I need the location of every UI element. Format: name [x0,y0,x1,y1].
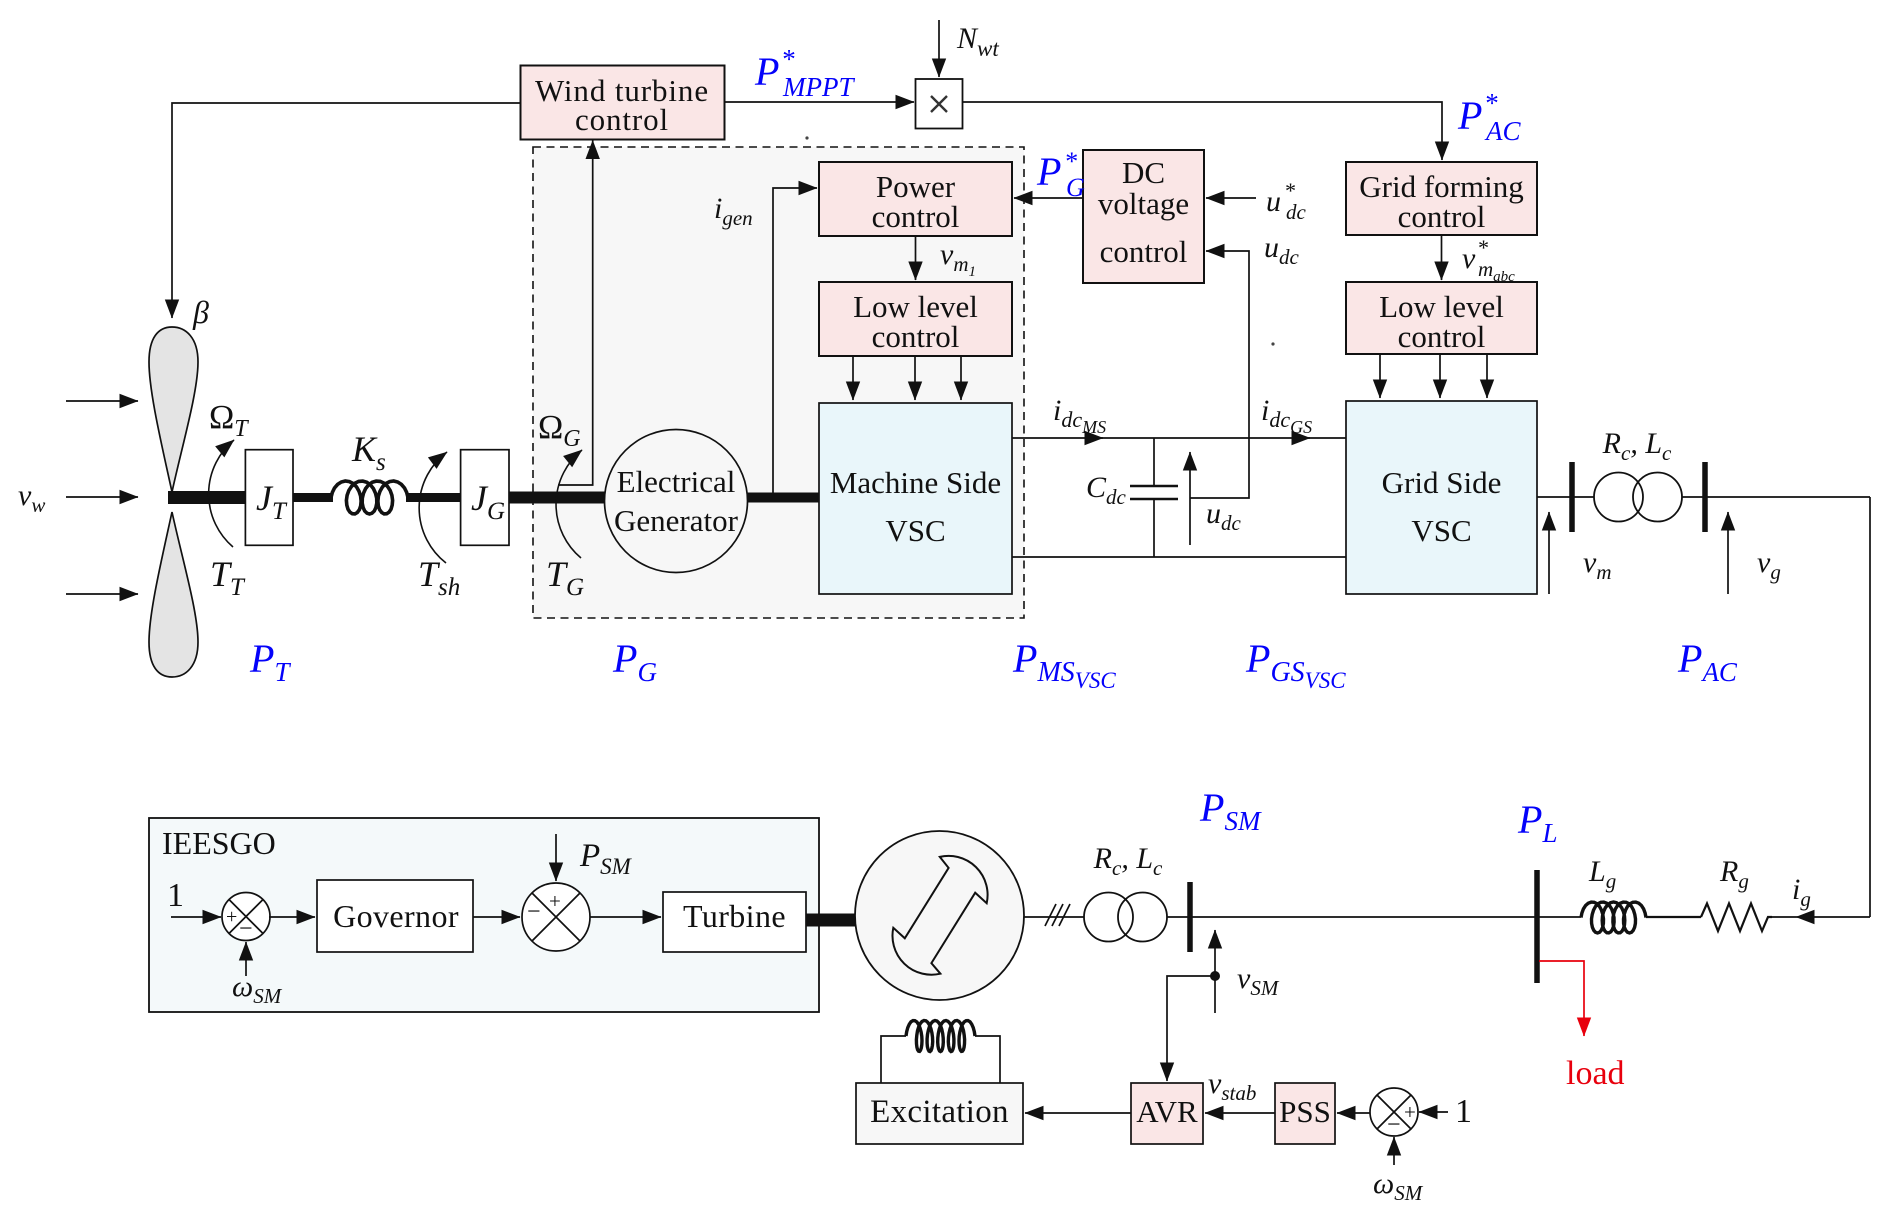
ac line transformer to load bus [1167,916,1581,918]
svg-text:Governor: Governor [333,898,459,934]
wire v_SM to AVR [1167,976,1215,1081]
svg-text:+: + [226,906,237,928]
wind arrow 2 [66,496,138,498]
v_g measurement arrow [1727,512,1729,594]
svg-text:Cdc: Cdc [1086,471,1127,509]
svg-text:ωSM: ωSM [1373,1167,1424,1205]
SM rotor glyph [892,856,987,975]
SECTION: bottom synchronous machine chain [149,785,1870,1205]
svg-text:1: 1 [1455,1093,1472,1130]
block PSS [1275,1083,1335,1144]
shaft spring to J_G [406,493,461,502]
wire P_SM into sum2 [555,834,557,881]
sum junction 3 [1370,1088,1418,1136]
svg-text:control: control [1398,319,1486,354]
bus bar v_g [1702,462,1708,532]
resistor R_g [1701,904,1772,932]
shaft J_G to generator [509,492,607,504]
svg-text:Rg: Rg [1719,855,1749,893]
wire sum2 to turbine [590,916,661,918]
block Machine Side VSC [819,403,1012,594]
omega_T arc [209,440,234,547]
svg-text:PT: PT [249,636,291,687]
SECTION: top wind turbine chain [18,20,1870,917]
svg-text:PL: PL [1517,797,1557,848]
transformer R_c L_c bottom [1084,893,1133,942]
wind arrow 1 [66,400,138,402]
svg-text:PAC: PAC [1677,636,1738,687]
three-phase slashes [1045,904,1070,926]
svg-text:AVR: AVR [1136,1094,1198,1129]
svg-text:VSC: VSC [1411,513,1471,548]
svg-text:Excitation: Excitation [870,1094,1009,1130]
multiplier block [916,79,963,129]
wire governor to sum2 [473,916,520,918]
v_m measurement arrow [1548,512,1550,594]
svg-text:udc: udc [1264,231,1300,269]
svg-text:−: − [527,899,541,925]
spring K_s [331,481,408,514]
node dot v_SM [1210,971,1220,981]
transformer R_c L_c top [1594,473,1643,522]
wind arrow 3 [66,593,138,595]
wire omega_SM into sum3 [1393,1137,1395,1165]
block Grid forming control [1346,162,1537,235]
stray dot artifact 1 [805,136,808,139]
red load tap [1539,961,1584,1036]
u_dc measurement arrow [1189,452,1191,545]
svg-text:vw: vw [18,479,45,517]
svg-text:control: control [575,102,669,137]
block Grid Side VSC [1346,401,1537,594]
svg-text:Ks: Ks [351,429,386,476]
stray dot artifact 2 [1271,342,1274,345]
svg-text:−: − [239,916,253,942]
svg-text:Tsh: Tsh [418,554,460,601]
svg-text:Electrical: Electrical [617,464,736,499]
excitation field coil [906,1021,975,1052]
svg-text:control: control [872,199,960,234]
svg-text:PGSVSC: PGSVSC [1245,636,1346,693]
svg-text:+: + [549,889,561,913]
svg-text:Generator: Generator [614,503,739,538]
svg-text:P*G: P*G [1036,147,1085,202]
bus bar P_SM [1187,882,1193,952]
svg-text:TT: TT [210,554,246,601]
block Low level control right [1346,282,1537,354]
svg-text:v*mabc: v*mabc [1462,235,1515,285]
wire multiplier to grid forming control [963,102,1443,160]
wire L_g to R_g [1646,916,1701,918]
svg-text:control: control [1100,234,1188,269]
wire i_g with arrow [1796,916,1870,918]
wire right edge down [1869,497,1871,917]
wire sum3 to PSS [1337,1112,1371,1114]
svg-text:PG: PG [612,636,657,687]
block Governor [317,880,473,952]
svg-text:idcMS: idcMS [1053,394,1106,437]
svg-text:ig: ig [1792,873,1811,911]
wires low level to GS VSC [1379,354,1381,398]
bus bar v_m [1569,462,1575,532]
wire sum1 to governor [269,916,315,918]
wind turbine blades [149,327,198,492]
omega_G arc [556,450,582,558]
wire omega_SM into sum1 [245,942,247,976]
wire DC voltage control to power control [1014,197,1083,199]
svg-text:IEESGO: IEESGO [162,825,276,861]
block Power control [819,162,1012,236]
svg-text:u*dc: u*dc [1266,178,1307,224]
svg-text:vm: vm [1583,546,1612,584]
v_SM measurement arrow [1214,930,1216,1013]
svg-text:Grid Side: Grid Side [1382,465,1502,500]
svg-text:vg: vg [1757,546,1781,584]
svg-text:ΩT: ΩT [209,399,249,442]
svg-text:control: control [872,319,960,354]
svg-text:PSS: PSS [1279,1094,1331,1129]
wire PSS to AVR [1205,1112,1275,1114]
capacitor C_dc [1153,438,1155,486]
svg-text:Rc, Lc: Rc, Lc [1093,842,1163,880]
electrical link generator to MS VSC [747,493,819,503]
wire i_gen measurement [773,188,817,493]
shaft J_T to spring [293,493,333,502]
shaft hub to J_T [168,491,245,504]
block Excitation [856,1083,1023,1144]
ac line transformer to corner [1682,496,1870,498]
IEESGO subsystem box [149,818,819,1012]
wire u_dc feedback into DC voltage control [1190,251,1249,498]
svg-text:Turbine: Turbine [683,898,786,934]
ac line SM to transformer [1024,916,1084,918]
block DC voltage control [1083,150,1204,283]
block Wind turbine control [521,66,725,140]
svg-text:vSM: vSM [1237,962,1280,1000]
excitation coil wires [881,1036,906,1083]
svg-text:VSC: VSC [885,513,945,548]
svg-text:P*AC: P*AC [1457,88,1521,146]
wire 1 into sum3 [1419,1111,1448,1113]
dc link top rail with i_dcMS arrow [1012,437,1103,439]
wires low level to MS VSC [852,356,854,400]
svg-text:Nwt: Nwt [956,22,999,61]
block AVR [1131,1083,1203,1144]
svg-text:PMSVSC: PMSVSC [1012,636,1116,693]
wire beta pitch line [172,103,520,318]
bus bar P_L [1534,870,1540,983]
svg-text:P*MPPT: P*MPPT [754,44,855,102]
wire N_wt input [938,20,940,77]
svg-text:udc: udc [1206,497,1242,535]
svg-text:load: load [1566,1055,1625,1092]
svg-text:DC: DC [1122,155,1165,190]
svg-text:idcGS: idcGS [1261,394,1312,437]
block Turbine [663,892,806,952]
synchronous machine circle [855,831,1024,1000]
svg-text:−: − [1387,1112,1401,1138]
inductor L_g [1581,902,1646,933]
wire wind turbine control to multiplier [725,101,914,103]
wire power control to low level control [915,236,917,280]
svg-text:voltage: voltage [1098,186,1189,221]
mechanical shaft turbine to SM [806,914,857,927]
svg-text:β: β [192,294,209,330]
inertia J_T [245,450,293,546]
inertia J_G [461,450,509,546]
svg-text:+: + [1404,1100,1416,1124]
svg-text:PSM: PSM [1199,785,1262,836]
electrical generator circle [605,430,748,573]
block Low level control left [819,282,1012,356]
wire u*_dc input [1206,197,1256,199]
sum junction 2 [522,883,590,951]
T_sh arc [419,452,447,563]
svg-text:Rc, Lc: Rc, Lc [1602,427,1672,465]
ac line GS VSC to bus [1537,496,1594,498]
wire AVR to excitation [1025,1112,1131,1114]
wire omega_G measurement up to wind turbine control [558,141,593,486]
svg-text:Machine Side: Machine Side [830,465,1001,500]
dashed subsystem box P_G [533,147,1024,618]
wire 1 into sum1 [171,916,221,918]
sum junction 1 [222,893,270,941]
dc link bottom rail [1012,556,1346,558]
svg-text:control: control [1398,199,1486,234]
svg-text:vstab: vstab [1208,1067,1256,1105]
svg-text:Lg: Lg [1588,855,1616,893]
wire grid forming to low level [1441,235,1443,280]
svg-text:1: 1 [167,877,184,914]
